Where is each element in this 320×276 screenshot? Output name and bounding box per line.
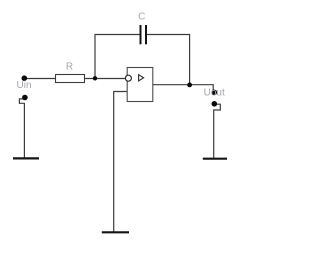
wire Uin reference pin jog down to left ground [19, 99, 24, 158]
ground right [203, 158, 227, 160]
node B junction dot (C / output) [187, 83, 192, 88]
wire Uout reference pin jog down to right ground [214, 104, 221, 158]
svg-text:Uin: Uin [17, 80, 32, 91]
wire feedback branch: node A up, across to capacitor left plate [95, 35, 140, 79]
node Uin reference terminal dot [22, 95, 28, 101]
svg-text:Uout: Uout [204, 88, 225, 99]
svg-text:R: R [66, 62, 73, 73]
wire op-amp output to node B and on to Uout terminal [153, 85, 213, 93]
wire capacitor right plate across and down to output node B [147, 35, 190, 86]
node Uin terminal dot [22, 75, 28, 81]
node Uout terminal dot [212, 90, 218, 96]
op-amp U1 amplifier triangle [139, 75, 144, 81]
ground left [13, 157, 39, 159]
ground middle [102, 231, 129, 233]
op-amp U1 body [127, 68, 153, 102]
wire resistor R right lead to op-amp inverting input [84, 78, 125, 80]
node A junction dot (R / C / op-amp input) [93, 76, 97, 80]
node Uout reference terminal dot [212, 101, 218, 107]
wire Uin terminal to resistor R left lead [24, 78, 56, 80]
op-amp U1 inverting input bubble [125, 75, 131, 81]
capacitor C right plate [145, 25, 147, 44]
resistor R body [56, 75, 85, 83]
wire op-amp non-inverting input left then down to middle ground [114, 92, 128, 233]
svg-text:C: C [138, 12, 145, 23]
capacitor C left plate [140, 25, 142, 44]
